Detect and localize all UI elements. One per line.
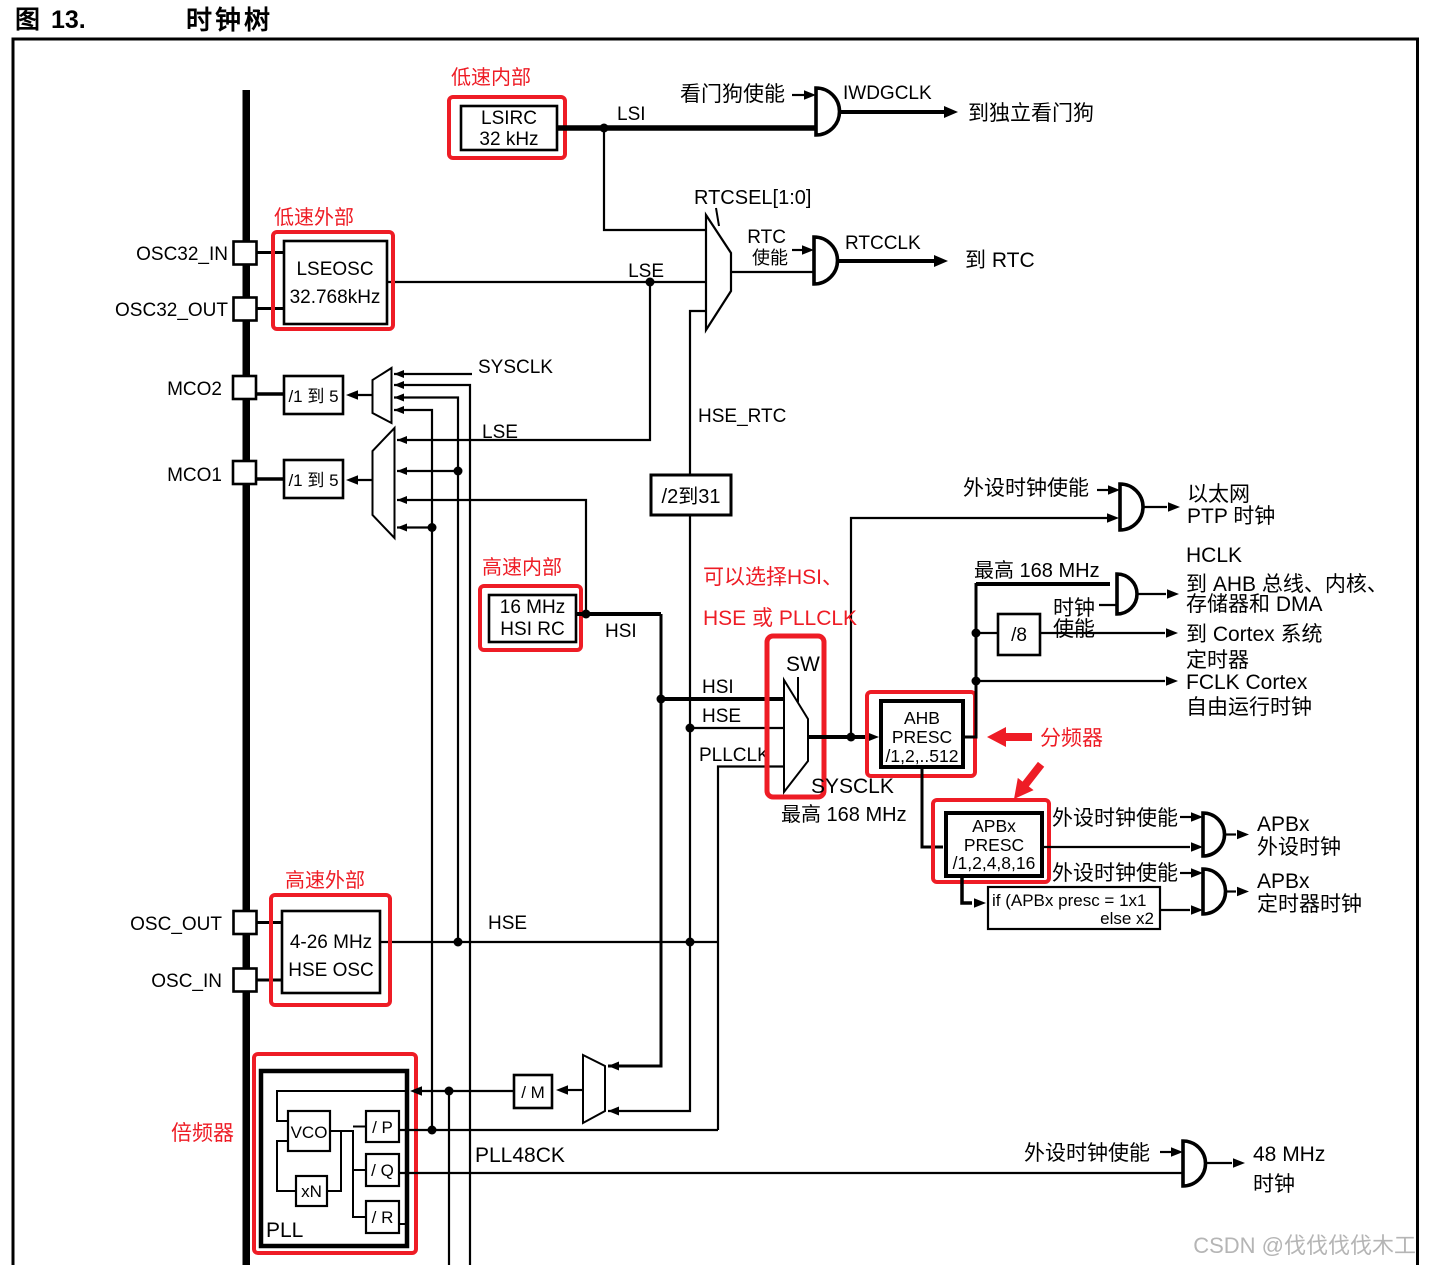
wire APBx prescaler to timer multiplier <box>962 876 986 908</box>
svg-text:图: 图 <box>15 6 40 34</box>
wire /8 output to Cortex system timer <box>1040 628 1178 638</box>
divider HSE_RTC /2到31 <box>651 406 786 515</box>
mux PLL source select <box>583 1055 619 1123</box>
wire PLLCLK vertical from divider P up to SW mux <box>718 767 784 1131</box>
wire PLL internal input <box>277 1091 407 1121</box>
wire HSI from HSI RC <box>576 610 661 643</box>
svg-text:最高 168 MHz: 最高 168 MHz <box>974 559 1100 582</box>
wire RTC mux output <box>731 271 814 273</box>
svg-text:时钟树: 时钟树 <box>186 5 273 35</box>
box timer multiplier if APBx presc <box>988 887 1160 929</box>
wire LSE net from LSEOSC to RTC mux and MCO1 input 1 <box>387 282 706 440</box>
wire APBx timer clock output <box>1226 870 1363 916</box>
svg-text:低速内部: 低速内部 <box>451 66 531 89</box>
svg-text:/1 到 5: /1 到 5 <box>288 471 338 490</box>
mux MCO1 source select <box>373 428 395 538</box>
label peripheral clock enable 外设时钟使能 (48 MHz) <box>1024 1142 1183 1165</box>
svg-text:到 RTC: 到 RTC <box>965 249 1035 272</box>
AND gate HCLK clock enable <box>1117 574 1137 614</box>
wire HSE into SW mux <box>690 727 784 729</box>
wire ethernet PTP clock output <box>1143 483 1275 528</box>
AND gate 48 MHz clock enable <box>1183 1141 1206 1186</box>
svg-text:定时器: 定时器 <box>1186 649 1249 672</box>
wire HSI into SW mux <box>661 697 784 701</box>
svg-text:LSI: LSI <box>617 104 646 125</box>
label multiplier 倍频器 (红) <box>171 1122 234 1145</box>
mux RTC clock select <box>628 215 731 330</box>
svg-text:IWDGCLK: IWDGCLK <box>843 83 932 104</box>
wire HCLK net from AHB prescaler <box>963 559 1110 737</box>
pin OSC32_OUT <box>115 298 284 322</box>
svg-text:LSE: LSE <box>482 422 518 443</box>
svg-text:使能: 使能 <box>752 248 788 268</box>
block VCO <box>288 1111 330 1151</box>
svg-text:到 Cortex 系统: 到 Cortex 系统 <box>1186 623 1323 646</box>
svg-text:MCO2: MCO2 <box>167 379 222 400</box>
wire APBx peripheral clock output <box>1225 813 1342 859</box>
svg-text:/ Q: / Q <box>371 1161 394 1180</box>
junction dots on HSE line <box>454 913 695 947</box>
wire APBx prescaler output to peripheral gate <box>1042 842 1203 852</box>
svg-text:FCLK Cortex: FCLK Cortex <box>1186 671 1308 694</box>
AND gate RTC clock enable <box>814 237 838 284</box>
wire HSI riser to MCO1 input 3 <box>397 500 586 614</box>
svg-text:CSDN @伐伐伐伐木工: CSDN @伐伐伐伐木工 <box>1193 1233 1416 1258</box>
annotation red arrow to AHB prescaler <box>987 727 1032 747</box>
wire HSE vertical riser to MCO2 input 3 and MCO1 input 2 <box>394 398 458 943</box>
svg-text:看门狗使能: 看门狗使能 <box>680 83 785 106</box>
junction dot HSI to SW <box>657 695 666 704</box>
divider MCO2 /1 到 5 <box>284 376 373 414</box>
label SW mux inputs HSI HSE PLLCLK <box>699 677 770 766</box>
wire PLL internal feedback xN <box>277 1131 341 1191</box>
device boundary bus bar <box>243 90 251 1265</box>
AND gate APBx timer clock enable <box>1203 869 1226 914</box>
wire 48 MHz clock output <box>1206 1143 1326 1196</box>
svg-text:LSIRC: LSIRC <box>481 108 537 129</box>
label peripheral clock enable 外设时钟使能 (APBx peripheral) <box>1052 807 1203 830</box>
wire PLL source mux output to /M <box>556 1085 583 1095</box>
wire timer clock to gate <box>1160 905 1203 915</box>
svg-text:LSE: LSE <box>628 261 664 282</box>
svg-text:HSI: HSI <box>702 677 734 698</box>
wire HSE_RTC / HSE vertical from RTC mux down to PLL source mux <box>608 311 706 1111</box>
junction dot HSE to SW <box>686 724 695 733</box>
svg-text:HSI RC: HSI RC <box>500 619 564 640</box>
svg-text:PRESC: PRESC <box>964 835 1024 855</box>
svg-text:PLL: PLL <box>266 1219 303 1242</box>
junction dot LSE <box>646 278 655 287</box>
svg-text:32 kHz: 32 kHz <box>479 129 538 150</box>
wire HSE main line from HSE OSC <box>380 941 719 943</box>
svg-text:存储器和 DMA: 存储器和 DMA <box>1186 593 1323 616</box>
svg-text:时钟: 时钟 <box>1053 597 1095 620</box>
svg-text:HSE 或 PLLCLK: HSE 或 PLLCLK <box>703 607 857 630</box>
svg-text:PLL48CK: PLL48CK <box>475 1144 565 1167</box>
svg-text:OSC32_OUT: OSC32_OUT <box>115 300 228 321</box>
pin OSC_IN <box>151 969 282 993</box>
wire LSI from LSIRC to IWDG gate <box>557 104 816 230</box>
mux MCO2 source select <box>373 368 392 423</box>
label watchdog enable 看门狗使能 <box>680 83 816 106</box>
svg-text:高速外部: 高速外部 <box>285 869 365 892</box>
svg-text:SYSCLK: SYSCLK <box>811 775 894 798</box>
wire PLLI2S vertical from MCO2 input 2 to bottom <box>394 385 470 1265</box>
AND gate ethernet PTP clock enable <box>1120 484 1143 530</box>
wire HCLK output <box>1137 589 1179 599</box>
svg-text:HSE: HSE <box>702 706 741 727</box>
svg-text:if (APBx presc = 1x1: if (APBx presc = 1x1 <box>992 891 1146 910</box>
label low speed external 低速外部 (红) <box>274 206 354 229</box>
svg-text:/1 到 5: /1 到 5 <box>288 387 338 406</box>
label 分频器 (红) <box>1040 727 1103 750</box>
wire /M output to PLL and PLLI2S <box>410 1086 514 1265</box>
svg-text:SW: SW <box>786 653 820 676</box>
svg-text:以太网: 以太网 <box>1187 483 1250 506</box>
divider /8 cortex systick <box>976 614 1040 655</box>
svg-text:VCO: VCO <box>291 1123 328 1142</box>
svg-text:HSE: HSE <box>488 913 527 934</box>
oscillator LSEOSC 32.768kHz <box>273 232 393 329</box>
mux SW system clock switch <box>767 636 824 797</box>
label clock enable 时钟使能 (HCLK) <box>1053 597 1117 641</box>
svg-text:低速外部: 低速外部 <box>274 206 354 229</box>
svg-text:4-26 MHz: 4-26 MHz <box>290 932 372 953</box>
svg-text:外设时钟使能: 外设时钟使能 <box>963 477 1089 500</box>
oscillator LSIRC 32 kHz <box>449 97 565 158</box>
label HCLK destination texts <box>1186 544 1388 719</box>
svg-text:HSE OSC: HSE OSC <box>288 960 374 981</box>
svg-text:/1,2,..512: /1,2,..512 <box>886 746 959 766</box>
svg-text:PRESC: PRESC <box>892 727 952 747</box>
svg-text:13.: 13. <box>51 6 86 34</box>
divider Q <box>366 1154 399 1186</box>
svg-text:定时器时钟: 定时器时钟 <box>1257 893 1362 916</box>
svg-text:APBx: APBx <box>1257 870 1310 893</box>
label RTC enable 使能 <box>747 227 814 268</box>
svg-text:LSEOSC: LSEOSC <box>296 259 373 280</box>
wire IWDGCLK output to independent watchdog <box>840 83 1095 125</box>
divider P <box>366 1111 399 1142</box>
wire MCO1 mux inputs with arrows <box>397 436 463 532</box>
title: figure caption 图 13. 时钟树 <box>15 5 273 35</box>
oscillator HSE OSC 4-26 MHz <box>271 895 390 1005</box>
svg-text:外设时钟: 外设时钟 <box>1257 836 1341 859</box>
svg-text:OSC_OUT: OSC_OUT <box>130 914 222 935</box>
svg-text:RTC: RTC <box>747 227 786 248</box>
wire PLL48CK from divider Q <box>399 1144 1185 1173</box>
annotation red arrow to APB prescaler <box>1006 758 1049 805</box>
svg-text:RTCCLK: RTCCLK <box>845 233 921 254</box>
wire FCLK Cortex <box>976 676 1178 686</box>
pin MCO2 <box>167 376 284 400</box>
svg-text:MCO1: MCO1 <box>167 465 222 486</box>
svg-text:/ P: / P <box>372 1118 393 1137</box>
svg-text:APBx: APBx <box>1257 813 1310 836</box>
svg-text:RTCSEL[1:0]: RTCSEL[1:0] <box>694 187 811 209</box>
svg-text:/8: /8 <box>1011 625 1027 646</box>
svg-text:/1,2,4,8,16: /1,2,4,8,16 <box>953 853 1036 873</box>
label high speed external 高速外部 (红) <box>285 869 365 892</box>
AND gate IWDG clock enable <box>816 88 840 135</box>
divider /M <box>514 1075 552 1108</box>
svg-text:外设时钟使能: 外设时钟使能 <box>1052 807 1178 830</box>
label low speed internal (红) <box>451 66 531 89</box>
svg-text:APBx: APBx <box>972 816 1016 836</box>
svg-text:可以选择HSI、: 可以选择HSI、 <box>703 566 843 589</box>
wire MCO2 mux inputs with arrows <box>394 357 553 414</box>
label LSE on MCO1 input <box>482 422 518 443</box>
wire PLLCLK from divider P <box>399 1126 718 1135</box>
block xN <box>296 1176 327 1206</box>
oscillator HSI RC 16 MHz <box>480 586 581 650</box>
svg-text:自由运行时钟: 自由运行时钟 <box>1186 696 1312 719</box>
pin OSC32_IN <box>136 242 284 266</box>
wire AHB to APB prescaler <box>922 767 943 847</box>
svg-text:HSE_RTC: HSE_RTC <box>698 406 786 427</box>
divider APBx PRESC /1,2,4,8,16 <box>933 800 1049 882</box>
svg-text:时钟: 时钟 <box>1253 1173 1295 1196</box>
divider AHB PRESC /1,2,..512 <box>867 692 975 776</box>
svg-text:PTP 时钟: PTP 时钟 <box>1187 505 1275 528</box>
label peripheral clock enable 外设时钟使能 (PTP) <box>963 477 1120 500</box>
label peripheral clock enable 外设时钟使能 (APBx timer) <box>1052 862 1203 885</box>
svg-text:HCLK: HCLK <box>1186 544 1242 567</box>
label high speed internal 高速内部 (红) <box>482 556 562 579</box>
svg-text:/ R: / R <box>372 1208 394 1227</box>
svg-text:分频器: 分频器 <box>1040 727 1103 750</box>
svg-text:最高 168 MHz: 最高 168 MHz <box>781 803 907 826</box>
svg-text:OSC32_IN: OSC32_IN <box>136 244 228 265</box>
svg-text:xN: xN <box>301 1182 322 1201</box>
divider MCO1 /1 到 5 <box>284 460 373 498</box>
wire RTCCLK output to RTC <box>838 233 1035 272</box>
AND gate APBx peripheral clock enable <box>1203 813 1225 856</box>
svg-text:/2到31: /2到31 <box>662 485 721 508</box>
wire PLLCLK vertical riser to MCO2 input 4 and MCO1 input 4 <box>394 410 432 1130</box>
svg-text:SYSCLK: SYSCLK <box>478 357 553 378</box>
svg-text:PLLCLK: PLLCLK <box>699 745 770 766</box>
divider R <box>366 1201 407 1233</box>
svg-text:32.768kHz: 32.768kHz <box>290 287 381 308</box>
svg-text:高速内部: 高速内部 <box>482 556 562 579</box>
watermark CSDN <box>1193 1233 1416 1258</box>
svg-text:48 MHz: 48 MHz <box>1253 1143 1325 1166</box>
svg-text:16 MHz: 16 MHz <box>500 597 565 618</box>
label RTCSEL[1:0] <box>694 187 811 226</box>
svg-text:/ M: / M <box>521 1083 545 1102</box>
svg-text:else x2: else x2 <box>1100 909 1154 928</box>
block PLL <box>254 1054 416 1253</box>
svg-text:倍频器: 倍频器 <box>171 1122 234 1145</box>
svg-text:到独立看门狗: 到独立看门狗 <box>968 102 1094 125</box>
wire HSI vertical from HSI RC down to PLL source mux <box>608 614 661 1066</box>
wire SYSCLK from SW mux to AHB prescaler <box>781 732 907 826</box>
svg-text:HSI: HSI <box>605 621 637 642</box>
pin MCO1 <box>167 461 284 486</box>
svg-text:AHB: AHB <box>904 708 940 728</box>
svg-text:OSC_IN: OSC_IN <box>151 971 222 992</box>
wire VCO output to dividers <box>330 1127 366 1218</box>
wire SYSCLK feedback from SW output to ethernet PTP gate <box>851 513 1119 737</box>
pin OSC_OUT <box>130 911 282 935</box>
svg-text:使能: 使能 <box>1053 618 1095 641</box>
svg-text:外设时钟使能: 外设时钟使能 <box>1052 862 1178 885</box>
svg-text:外设时钟使能: 外设时钟使能 <box>1024 1142 1150 1165</box>
label 可以选择HSI、HSE 或 PLLCLK (红) <box>703 566 857 630</box>
